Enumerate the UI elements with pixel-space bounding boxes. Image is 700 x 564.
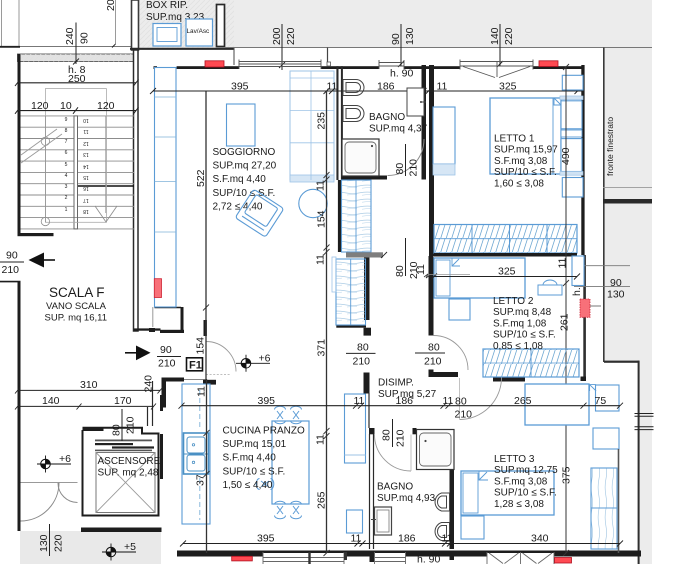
landing/ascensore wall [148,381,153,426]
svg-text:fronte finestrato: fronte finestrato [605,117,615,176]
step numbers right (upside down) [83,117,89,214]
svg-text:240: 240 [64,27,76,45]
cucina east wall [365,393,370,428]
right wall (top part) [581,65,584,255]
svg-text:265: 265 [514,395,532,407]
stair left wall [18,54,21,236]
svg-text:BOX RIP.: BOX RIP. [146,0,188,11]
bagno1 bottom wall [342,176,388,180]
svg-text:325: 325 [499,81,517,93]
svg-text:BAGNO: BAGNO [377,482,413,493]
svg-text:261: 261 [559,313,571,331]
box rip bottom wall [130,48,234,50]
svg-text:395: 395 [258,395,276,407]
svg-text:F1: F1 [189,360,202,372]
cucina tall cabinet [345,394,366,463]
stair flight divider [74,116,78,229]
letto1 wardrobe west [433,107,455,164]
disimp west wall upper (soggiorno side) [364,257,370,320]
window bagno1 [379,60,404,69]
letto2 west wall upper [429,256,434,336]
stair steps left flight [21,116,135,229]
letto3 right small unit [593,428,619,449]
wall corner SE of letto2 band [581,377,587,382]
svg-text:SUP.mq 4,37: SUP.mq 4,37 [369,124,428,135]
dim 200/220 [271,27,297,45]
svg-text:0,85 ≤ 1,08: 0,85 ≤ 1,08 [493,341,543,352]
level marker +5 (outside) [102,541,136,561]
svg-text:130: 130 [404,27,416,45]
svg-text:13: 13 [83,151,89,157]
svg-text:SUP/10 ≤ S.F.: SUP/10 ≤ S.F. [493,330,556,341]
svg-text:SUP/10 ≤ S.F.: SUP/10 ≤ S.F. [223,466,286,477]
svg-text:80: 80 [357,342,369,354]
letto3 below unit [461,516,484,539]
bagno1 door arc [388,139,425,176]
left exit arrow [29,253,45,268]
disimp bottom wall piece (above bagno2 shower) [417,428,455,431]
letto2/3 divider wall [430,372,458,377]
svg-text:371: 371 [316,339,328,357]
svg-text:154: 154 [316,210,328,228]
stair right wall [134,50,139,331]
window cucina (below wall) [263,553,344,564]
svg-text:15: 15 [83,174,89,180]
stair walk line left with circles [44,116,46,222]
stair steps right flight [78,116,135,206]
letto2 bottom closet hatched [483,349,579,377]
svg-text:210: 210 [408,159,420,177]
svg-text:325: 325 [498,266,516,278]
svg-text:395: 395 [257,533,275,545]
washing column bagno1 [407,88,424,116]
corridor top wall (under F1 niche) [162,378,185,382]
svg-text:SUP.mq 15,97: SUP.mq 15,97 [494,145,558,156]
F1 door arc + leaf [206,342,236,372]
red vent bottom 2 [555,558,572,564]
svg-text:90: 90 [79,32,91,44]
room label LETTO 3 [494,454,558,510]
svg-text:80: 80 [111,424,123,436]
svg-text:75: 75 [595,395,607,407]
svg-text:VANO SCALA: VANO SCALA [46,301,107,312]
gray outside region: bottom-left landing [20,531,161,564]
dim line 11/37 vertical at kitchen [195,379,210,553]
room label LETTO 1 [494,134,558,190]
letto3 east wall thin [618,449,620,553]
svg-text:80: 80 [381,429,393,441]
svg-text:18: 18 [83,208,89,214]
svg-text:310: 310 [80,379,98,391]
svg-text:S.F.mq 4,40: S.F.mq 4,40 [223,453,277,464]
svg-text:11: 11 [351,533,362,545]
svg-text:LETTO 3: LETTO 3 [494,454,535,465]
bidet bagno1 [343,106,364,122]
disimp west wall below soggiorno door [364,373,370,394]
level marker +6 (landing) [37,453,71,473]
svg-text:265: 265 [316,491,328,509]
terrace line thin [603,187,652,189]
bottom right step boundary horizontal [604,361,639,363]
svg-text:90: 90 [610,277,622,289]
svg-text:90: 90 [160,344,172,356]
gray outside region: top band [139,0,652,48]
svg-text:210: 210 [395,429,407,447]
svg-text:11: 11 [354,395,365,407]
entrance arrow [136,346,151,361]
svg-text:3: 3 [65,184,68,190]
letto1 left wall [429,65,434,224]
svg-text:340: 340 [531,533,549,545]
soggiorno bottom zigzag walls [134,328,161,330]
room label CUCINA PRANZO [223,426,305,491]
kitchen west wall low segments [160,434,163,479]
kitchen counter [182,384,210,524]
stair core outline [45,89,106,223]
elevator cab [96,453,155,513]
sofa rug rect [227,104,256,146]
svg-text:522: 522 [195,169,207,187]
room label LETTO 2 [493,296,556,352]
svg-text:210: 210 [125,416,137,434]
svg-text:16: 16 [83,185,89,191]
svg-text:11: 11 [83,128,88,134]
doorway gray bar [346,252,383,257]
svg-text:210: 210 [455,409,473,421]
svg-text:11: 11 [415,264,427,275]
svg-text:S.F.mq 4,40: S.F.mq 4,40 [213,174,267,185]
neighbour wall thick [603,199,652,204]
stair cut step dark [78,185,135,187]
letto2 below-bed unit [449,299,470,320]
wall below elevator [81,528,162,533]
svg-text:+6: +6 [259,353,271,365]
svg-text:90: 90 [390,33,402,45]
svg-text:SUP.mq 12,75: SUP.mq 12,75 [494,465,558,476]
wc bagno1 [343,80,364,96]
svg-text:5: 5 [65,162,68,168]
wavy closet 2 [336,259,366,325]
svg-text:14: 14 [83,163,89,169]
window letto1 splayed [460,60,533,78]
closet2 bottom bar [336,325,366,328]
stair direction V arrow [95,206,117,222]
top band lower boundary [225,47,652,49]
svg-text:375: 375 [561,466,573,484]
svg-text:CUCINA PRANZO: CUCINA PRANZO [223,426,305,437]
wavy closet 1 [342,180,372,252]
svg-text:Lav/Asc: Lav/Asc [187,28,211,35]
svg-text:220: 220 [503,27,515,45]
fridge blue [347,510,363,533]
svg-text:LETTO 1: LETTO 1 [494,134,535,145]
svg-text:210: 210 [158,358,176,370]
svg-text:6: 6 [65,150,68,156]
F1 label [187,358,203,371]
svg-text:SUP/10 ≤ S.F.: SUP/10 ≤ S.F. [494,488,557,499]
svg-text:1,60 ≤ 3,08: 1,60 ≤ 3,08 [494,178,544,189]
svg-text:1,50 ≤ 4,40: 1,50 ≤ 4,40 [223,480,273,491]
svg-text:2: 2 [65,195,68,201]
letto1/2 closet side walls [429,224,434,256]
svg-text:DISIMP.: DISIMP. [378,378,414,389]
svg-text:S.F.mq 1,08: S.F.mq 1,08 [493,318,547,329]
window soggiorno [239,60,321,70]
svg-text:SUP.mq 15,01: SUP.mq 15,01 [223,439,287,450]
dim 522 vertical line [205,91,207,380]
F1 entrance wall [204,320,207,336]
svg-text:80: 80 [394,163,406,175]
red vent bottom 1 [232,556,253,561]
red vent letto2 wall [580,299,590,317]
svg-text:130: 130 [38,534,50,552]
letto2 west wall lower [429,370,434,378]
letto3 door leaf + arc [459,378,461,419]
round table [299,189,327,217]
wire: neighbour wall line [1,0,3,47]
gray outside region: right band [604,48,652,564]
boundary line [603,48,605,363]
red vent top 2 [539,61,558,67]
svg-text:1: 1 [65,207,68,213]
bagno1 left wall lower / closet1 wall [338,180,342,252]
balcony door letto3 splayed [487,553,554,564]
chairs top [275,406,302,424]
svg-text:h. 90: h. 90 [390,68,414,80]
svg-text:BAGNO: BAGNO [369,112,405,123]
svg-text:140: 140 [489,27,501,45]
svg-text:10: 10 [83,117,89,123]
svg-text:140: 140 [42,395,60,407]
letto2 desk right [538,285,562,295]
svg-text:170: 170 [114,395,132,407]
neighbour wall (double) [132,0,139,50]
letto1 bed [490,98,561,174]
red strip in wardrobe [154,279,161,298]
svg-text:11: 11 [437,81,448,93]
stair bottom landing edge [18,233,54,236]
letto3 bed [461,471,554,515]
svg-text:4: 4 [65,173,68,179]
svg-text:+6: +6 [59,453,71,465]
svg-text:200: 200 [271,27,283,45]
stair walk line right [105,116,107,213]
closet band bottom wall [434,253,577,257]
washbasin bagno2 [375,507,392,535]
svg-text:154: 154 [195,337,207,355]
right wall window ticks [635,414,654,430]
wc bagno2 [435,493,449,511]
dim 490 vertical [565,67,567,553]
letto2 bedside unit at east wall [572,256,584,286]
box rip cabinet [153,24,181,47]
bagno2 west wall foot [370,551,375,563]
svg-text:17: 17 [83,197,89,203]
svg-text:235: 235 [316,112,328,130]
svg-text:1,28 ≤ 3,08: 1,28 ≤ 3,08 [494,499,544,510]
svg-text:h. 90: h. 90 [417,554,441,564]
svg-text:SUP. mq 16,11: SUP. mq 16,11 [45,313,108,324]
Lav/Asc box [186,19,213,46]
bagno2 door leaf + arc [375,435,412,472]
svg-text:8: 8 [65,128,68,134]
letto2 top thin dim line with break [428,274,470,276]
svg-text:SUP.mq 8,48: SUP.mq 8,48 [493,307,552,318]
svg-text:SUP.mq 4,93: SUP.mq 4,93 [377,493,436,504]
svg-text:SCALA F: SCALA F [49,285,105,300]
level marker +6 (entrance) [236,353,271,372]
wardrobe left strip [155,68,177,308]
svg-text:ASCENSORE: ASCENSORE [98,456,161,467]
svg-text:SUP.mq 27,20: SUP.mq 27,20 [213,161,277,172]
svg-text:220: 220 [53,534,65,552]
dim 325 letto2 [434,276,577,278]
svg-text:SOGGIORNO: SOGGIORNO [213,147,276,158]
stair break diagonals [21,134,62,163]
soggiorno/bagno1 spine wall [336,66,338,180]
bagno2 west wall [370,434,374,549]
svg-text:490: 490 [560,147,572,165]
svg-text:130: 130 [607,289,625,301]
letto3 wardrobe right hatched [591,468,617,549]
svg-text:SUP. mq 2,48: SUP. mq 2,48 [98,468,159,479]
outside wall edge line x=234 [233,48,235,66]
left wall lower faint [152,307,154,327]
dim 90/130 (bagno window) [390,27,416,45]
svg-text:SUP/10 ≤ S.F.: SUP/10 ≤ S.F. [494,167,557,178]
svg-text:12: 12 [83,140,89,146]
svg-text:LETTO 2: LETTO 2 [493,296,534,307]
letto3 top bed [525,384,589,425]
letto1 east wardrobe column [562,75,583,90]
disimp west wall stub above door [364,328,372,336]
letto1 closet hatched band [434,225,577,254]
letto2 bed [434,258,525,298]
svg-text:186: 186 [377,81,395,93]
svg-text:S.F.mq 3,08: S.F.mq 3,08 [494,156,548,167]
sink unit [184,433,209,474]
red vent top 1 [205,61,224,67]
svg-text:210: 210 [353,356,371,368]
svg-text:90: 90 [6,250,18,262]
svg-text:20: 20 [105,0,117,11]
letto2 door leaf + arc [429,321,432,336]
svg-text:210: 210 [2,264,20,276]
dim arrows stair [15,80,139,114]
shower bagno2 [417,430,455,470]
svg-text:+5: +5 [124,541,136,553]
svg-text:2,72 ≤ 4,40: 2,72 ≤ 4,40 [213,201,263,212]
bottom right outer boundary vertical [638,361,640,564]
corridor west wall [162,381,167,408]
svg-text:80: 80 [428,342,440,354]
svg-text:11: 11 [315,434,327,445]
armchair rotated [235,189,284,237]
shower bagno1 [342,139,379,176]
svg-text:S.F.mq 3,08: S.F.mq 3,08 [494,476,548,487]
letto3 top-right unit [596,385,620,411]
svg-text:240: 240 [143,375,155,393]
bagno2 top wall door blocks [369,428,375,434]
chair left [256,479,274,490]
dim 140/220 (letto1 window) [489,27,515,45]
bidet bagno2 [435,523,449,541]
wall cap left exit [0,281,21,283]
svg-text:80: 80 [394,265,406,277]
bagno1 right wall [422,65,427,179]
svg-text:395: 395 [231,81,249,93]
elevator sliding door bars [95,440,154,452]
step numbers left [65,117,68,213]
bagno2 east wall [450,434,455,549]
dining table [272,421,309,504]
dim 240/90 vertical (left) [64,27,91,45]
svg-text:210: 210 [424,356,442,368]
neighbour slab line [0,46,133,48]
svg-text:7: 7 [65,139,68,145]
svg-text:11: 11 [557,257,569,268]
box rip right wall [217,5,225,47]
svg-text:11: 11 [315,254,327,265]
svg-text:186: 186 [396,395,414,407]
top wall segments [154,66,158,69]
bagno2 east wall foot [450,551,455,561]
east cabinet column [290,71,334,180]
stair top wall hatched [18,54,137,62]
svg-text:11: 11 [196,386,208,397]
window bagno2 (below wall) [375,553,406,564]
svg-text:h.: h. [571,287,583,296]
svg-text:9: 9 [65,117,68,123]
chairs bottom [275,501,302,519]
svg-text:186: 186 [398,533,416,545]
svg-text:220: 220 [285,27,297,45]
cucina window end block [344,552,347,560]
